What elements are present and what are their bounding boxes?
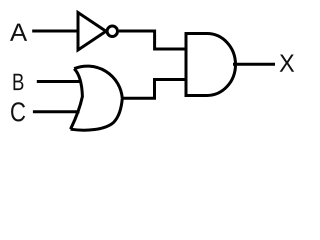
wire OR output to AND bottom input <box>122 80 187 99</box>
wire inverter output to AND top input <box>119 31 187 49</box>
inverter U1 bubble <box>107 26 117 36</box>
wire A to inverter input <box>32 30 79 33</box>
wire AND output <box>233 63 275 66</box>
node C label <box>11 102 25 121</box>
node X label <box>280 55 295 72</box>
inverter U1 triangle <box>78 13 106 51</box>
wire B to OR input <box>37 80 81 83</box>
wire C to OR input <box>33 110 80 113</box>
node A label <box>10 24 27 41</box>
OR gate U2 <box>71 66 123 130</box>
node B label <box>13 74 23 90</box>
AND gate U3 <box>186 34 236 96</box>
